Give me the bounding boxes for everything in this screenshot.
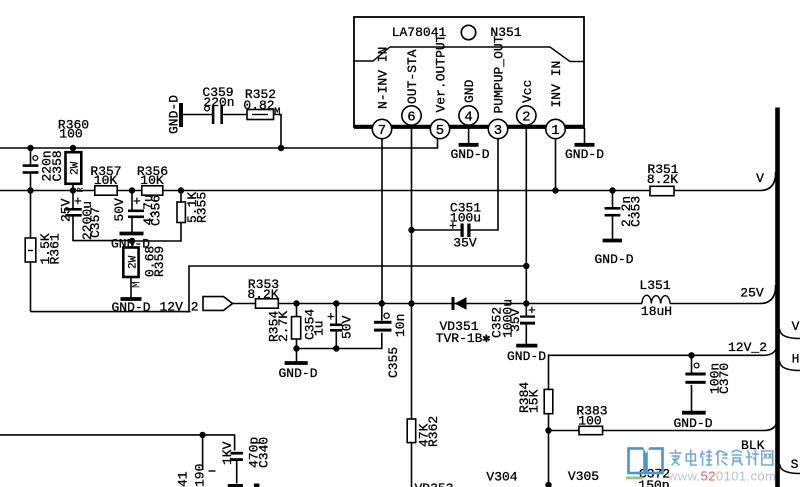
resistor R356 10K (137, 164, 168, 195)
svg-text:GND-D: GND-D (450, 147, 489, 162)
junction pin2/C352 (523, 300, 529, 306)
diode VD351 TVR-1B (436, 297, 491, 346)
inductor L351 18uH (639, 278, 672, 319)
svg-text:V304: V304 (486, 470, 517, 485)
node dot Vcc-wireA (523, 263, 529, 269)
resistor R355 5.1K (132, 191, 210, 242)
svg-text:100: 100 (578, 414, 601, 429)
wire node 2 horizontal (feedback V line) (0, 172, 776, 191)
resistor R357 10K (90, 164, 121, 195)
svg-text:GND-D: GND-D (278, 366, 317, 381)
svg-text:10n: 10n (393, 314, 408, 337)
svg-text:18uH: 18uH (641, 304, 672, 319)
svg-text:C357: C357 (88, 207, 103, 238)
wire stub down from bottom-left node (202, 435, 204, 470)
wire R352 down to node on wire1 (274, 115, 282, 149)
svg-text:S: S (791, 457, 799, 472)
junction R360-wire2 (70, 187, 76, 193)
junction C358-wire2 (27, 187, 33, 193)
wire bottom-left horizontal (0, 435, 235, 451)
junction R354 bottom (293, 345, 299, 351)
svg-text:PUMPUP_OUT: PUMPUP_OUT (492, 35, 507, 113)
svg-text:220n: 220n (203, 95, 234, 110)
junction pin6/R362 (408, 300, 414, 306)
svg-text:150p: 150p (638, 478, 669, 487)
pin 5 circle (430, 119, 449, 139)
wire IC corner stub to ground (584, 128, 586, 144)
resistor R352 0.82 (243, 87, 280, 120)
svg-text:V305: V305 (568, 469, 599, 484)
ground GND-D below C356 (120, 232, 144, 236)
svg-text:GND-D: GND-D (111, 300, 150, 315)
pin 6 circle (402, 106, 421, 126)
svg-text:8.2K: 8.2K (647, 172, 678, 187)
wire pin 6 down to diode net (411, 124, 413, 304)
ground GND-D below C370 (682, 411, 706, 415)
ground GND-D below C353 (603, 239, 622, 243)
svg-text:+: + (133, 194, 141, 209)
svg-text:12V_2: 12V_2 (728, 340, 767, 355)
svg-text:GND-D: GND-D (507, 349, 546, 364)
svg-text:M: M (132, 281, 144, 288)
wire tag to 25V rail through R353/VD351/L351 (233, 303, 643, 305)
svg-text:TVR-1B✱: TVR-1B✱ (436, 331, 491, 346)
capacitor C351 100u 35V (408, 201, 481, 251)
svg-text:7: 7 (378, 123, 386, 139)
capacitor C358 220n between wire1 and wire2 (23, 148, 65, 191)
wire S branch stub right of bus (780, 464, 800, 474)
svg-text:1u: 1u (312, 320, 327, 336)
svg-text:100: 100 (59, 127, 82, 142)
capacitor C370 100n (685, 355, 731, 411)
svg-text:GND-D: GND-D (673, 416, 712, 431)
svg-text:R359: R359 (152, 246, 167, 277)
wire node 1 horizontal (to pin 5) (0, 138, 438, 148)
component stub (cut) right of pad (254, 484, 260, 487)
resistor R359 0.68 2W (123, 241, 167, 298)
wire tick near 190 (209, 470, 216, 472)
node dot R359 top (129, 238, 135, 244)
wire ground to C359 (183, 114, 212, 116)
svg-text:GND-D: GND-D (594, 252, 633, 267)
pin 3 circle (488, 119, 507, 139)
svg-text:15K: 15K (527, 389, 542, 413)
junction C356-wire2 (129, 187, 135, 193)
svg-text:VD353: VD353 (414, 481, 453, 487)
node dot C370 tap (688, 352, 694, 358)
svg-text:V: V (792, 319, 800, 334)
svg-text:R362: R362 (426, 416, 441, 447)
wire 12V_2 rail to bus (549, 339, 779, 389)
svg-text:GND: GND (462, 79, 477, 103)
wire pin 4 stub to ground (468, 124, 470, 144)
connector pad (cut) below C340 (228, 484, 243, 487)
svg-text:R: R (76, 187, 86, 193)
capacitor C355 10n (374, 304, 408, 379)
junction C354 top (333, 300, 339, 306)
svg-text:C358: C358 (50, 150, 65, 181)
op-amp U1 N351 LA78041 vertical-output IC body (354, 17, 584, 127)
capacitor C352 1000u 35V (490, 299, 537, 344)
IC logo circle (461, 25, 475, 39)
resistor R361 1.5K (25, 191, 62, 312)
resistor R360 100 2W (66, 148, 87, 193)
wire H branch stub right of bus (780, 361, 800, 371)
svg-text:100u: 100u (450, 211, 481, 226)
svg-text:+: + (327, 310, 335, 325)
svg-text:R361: R361 (48, 233, 63, 264)
wire pin 1 down to feedback net (555, 136, 557, 191)
svg-text:190: 190 (193, 464, 208, 487)
junction pin7/C355 (379, 300, 385, 306)
node 12V_2 tag flag (203, 297, 233, 311)
wire R361 bottom to Vcc node (long L path) (31, 266, 527, 312)
svg-text:M: M (274, 107, 281, 119)
wire bottom joining R354 C354 C355 (297, 333, 382, 349)
svg-text:L351: L351 (639, 278, 670, 293)
resistor R354 2.7K (267, 304, 301, 362)
junction C358-wire1 (27, 145, 33, 151)
svg-text:H: H (792, 352, 800, 367)
ground GND-D below R354 (285, 361, 308, 365)
svg-text:INV IN: INV IN (549, 61, 564, 108)
svg-text:1KV: 1KV (220, 441, 235, 465)
capacitor C340 470p 1KV (220, 437, 272, 484)
svg-text:GND-D: GND-D (565, 147, 604, 162)
node dot lower stub (545, 482, 551, 487)
svg-text:C355: C355 (386, 347, 401, 378)
wire C359 to R352 (223, 114, 247, 116)
svg-text:50V: 50V (340, 315, 355, 339)
svg-text:GND-D: GND-D (167, 95, 182, 134)
svg-text:3: 3 (494, 123, 502, 139)
capacitor C353 2.2n (605, 191, 644, 239)
junction R352-wire1 (278, 145, 284, 151)
svg-text:C370: C370 (717, 363, 732, 394)
svg-text:C356: C356 (149, 195, 164, 226)
capacitor C356 4.7u 50V (112, 191, 164, 233)
wire pin 7 down to R353 net (381, 136, 383, 304)
wire pin 2 down to C352 node (525, 124, 527, 304)
wire V branch stub right of bus (780, 329, 800, 339)
svg-text:5: 5 (436, 123, 444, 139)
wire pin 3 down to C351 (471, 136, 499, 230)
svg-text:OUT-STA: OUT-STA (405, 49, 420, 104)
ground GND-D below R359 (121, 297, 142, 301)
resistor R351 8.2K (647, 162, 679, 196)
watermark green underline (626, 477, 643, 480)
svg-text:25V: 25V (740, 286, 764, 301)
svg-text:6: 6 (407, 109, 415, 125)
resistor R383 100 (576, 404, 607, 435)
svg-text:10K: 10K (94, 173, 118, 188)
junction R360-wire1 (70, 145, 76, 151)
wire R383 run to bus (BLK) (549, 415, 779, 431)
capacitor C354 1u 50V (303, 304, 355, 349)
junction C354 bottom (333, 345, 339, 351)
svg-text:35V: 35V (508, 308, 523, 332)
svg-text:25V: 25V (58, 198, 73, 222)
svg-text:10K: 10K (140, 173, 164, 188)
svg-text:V: V (756, 171, 764, 186)
power bus thick vertical line (775, 108, 780, 487)
svg-text:50V: 50V (112, 198, 127, 222)
svg-text:2W: 2W (70, 161, 82, 175)
capacitor C357 2200u 25V (58, 191, 132, 241)
ground GND-D below C352 (516, 344, 537, 348)
svg-text:2: 2 (522, 109, 530, 125)
watermark book logo (629, 449, 663, 474)
junction pin1-wire2 (552, 187, 558, 193)
resistor R362 47K (407, 304, 441, 487)
node dot bottom-left (199, 432, 205, 438)
resistor R353 8.2K (247, 277, 279, 308)
pin 2 circle (517, 106, 536, 126)
ground GND-D at pin 4 (459, 143, 479, 147)
svg-text:35V: 35V (453, 236, 477, 251)
svg-text:C340: C340 (257, 437, 272, 468)
svg-text:C353: C353 (629, 196, 644, 227)
svg-text:R355: R355 (195, 192, 210, 223)
node dot R384/R383 (545, 427, 551, 433)
svg-text:2W: 2W (128, 255, 140, 269)
svg-text:8.2K: 8.2K (247, 287, 278, 302)
junction R355-wire2 (178, 187, 184, 193)
pin 7 circle (372, 119, 391, 139)
ground GND-D at pin 1 side (575, 143, 595, 147)
svg-text:Vcc: Vcc (520, 80, 535, 103)
svg-text:1: 1 (551, 123, 559, 139)
svg-text:0.82: 0.82 (243, 98, 274, 113)
svg-text:41: 41 (176, 471, 191, 487)
pin 1 circle (546, 119, 565, 139)
capacitor C359 220n (202, 85, 234, 124)
svg-text:www.520101.com: www.520101.com (667, 469, 776, 484)
resistor R384 15K (517, 382, 553, 487)
pin 4 circle (459, 106, 478, 126)
svg-text:Ver.OUTPUT: Ver.OUTPUT (434, 34, 449, 112)
junction C353-wire2 (609, 187, 615, 193)
ground GND-D left of C359 (rotated) (179, 103, 183, 127)
svg-text:2.7K: 2.7K (276, 311, 291, 342)
svg-text:N-INV IN: N-INV IN (376, 47, 391, 109)
watermark chinese characters (drawn strokes) (670, 450, 773, 465)
junction R354 top (293, 300, 299, 306)
svg-text:4: 4 (464, 109, 472, 125)
